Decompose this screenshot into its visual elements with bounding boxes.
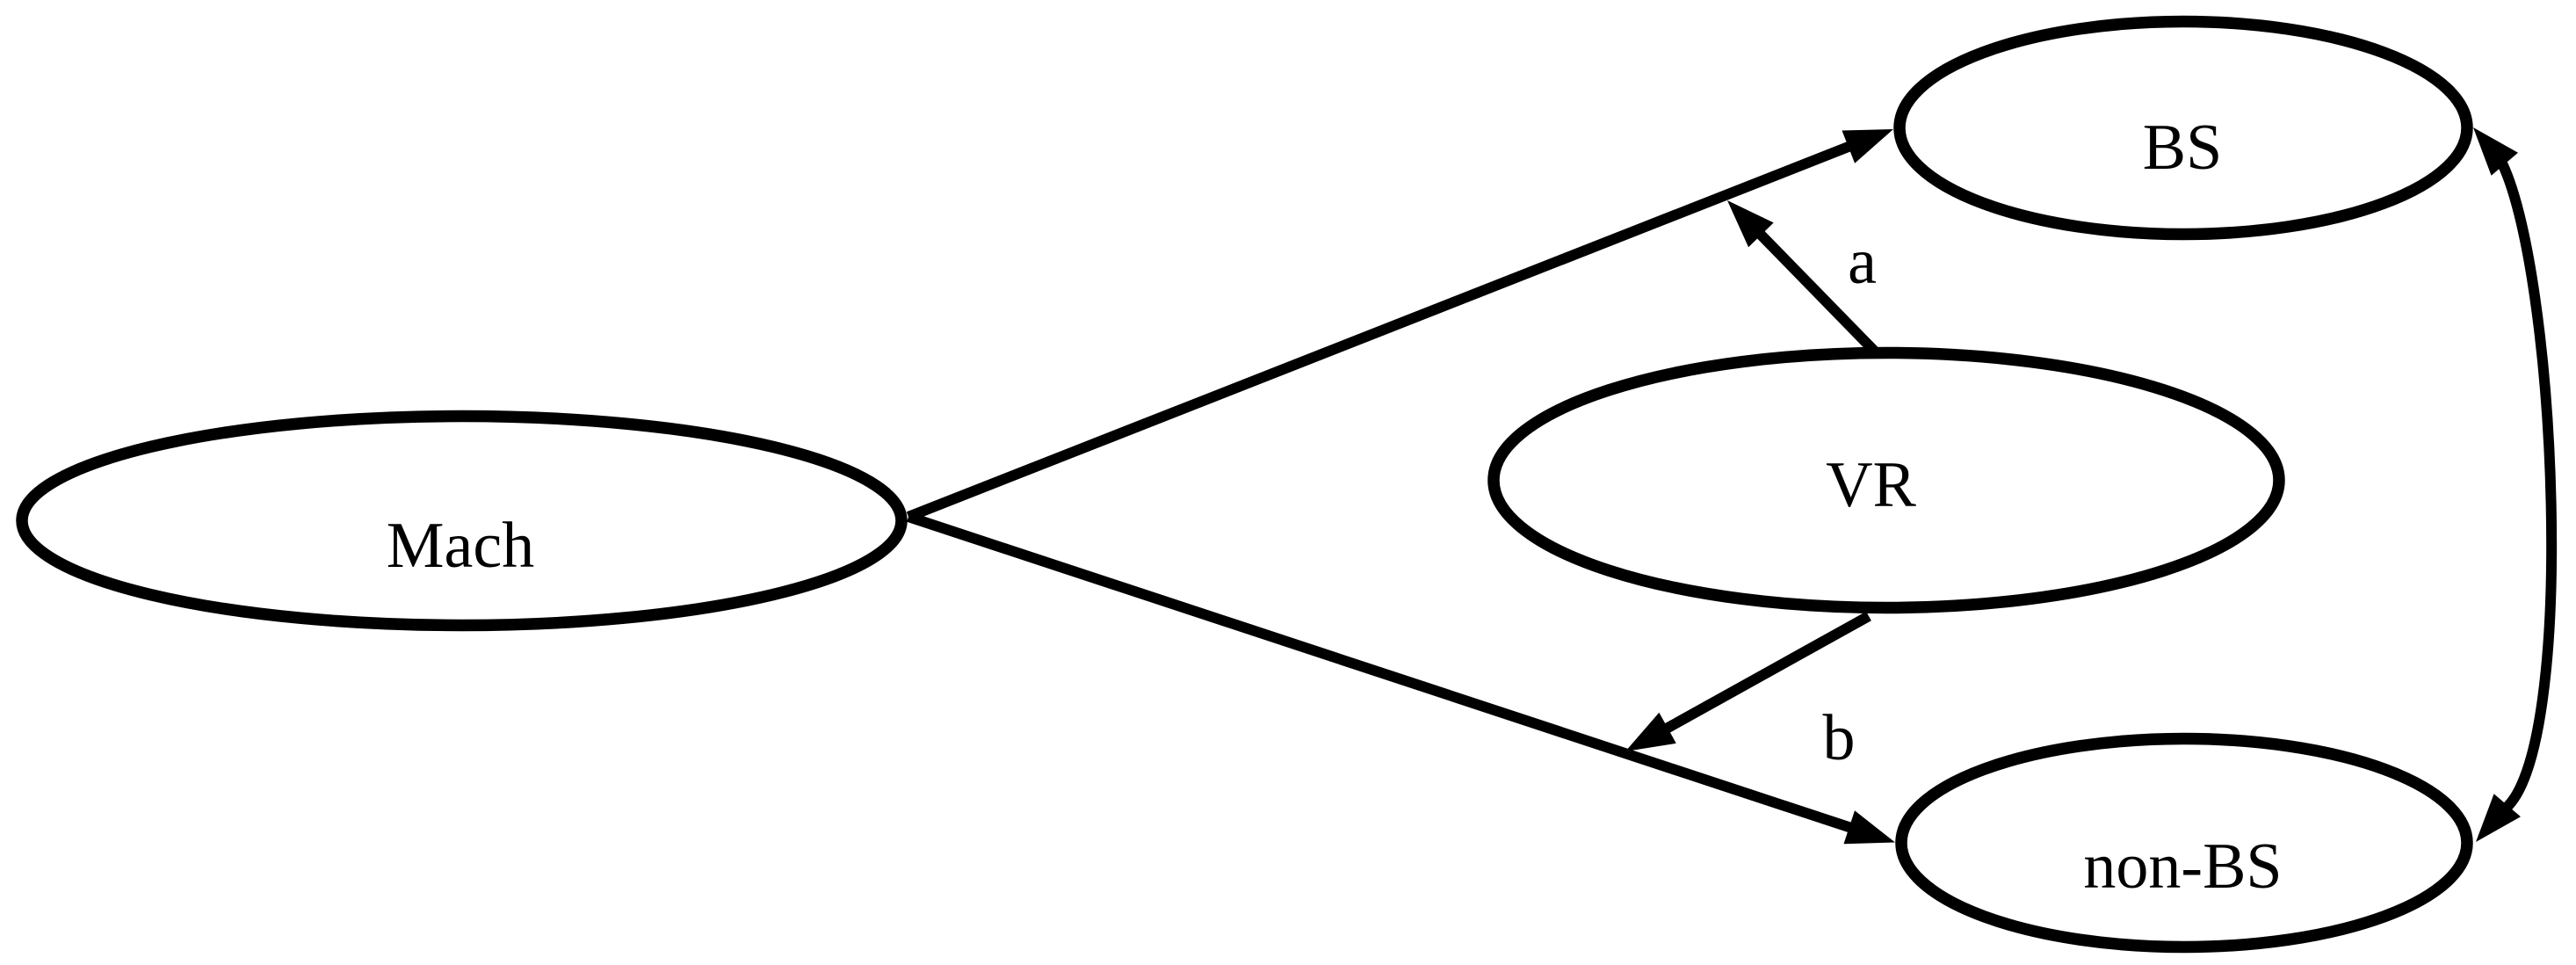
ellipse VR (1494, 353, 2279, 608)
arrowhead a (1727, 200, 1774, 247)
curved wire BS to non-BS (2500, 158, 2551, 810)
svg-text:b: b (1823, 702, 1856, 774)
arrowhead curve top at BS (2473, 127, 2518, 176)
arrowhead at BS (1842, 129, 1894, 163)
svg-text:Mach: Mach (387, 510, 535, 582)
svg-text:VR: VR (1826, 449, 1916, 521)
ellipse non-BS (1901, 739, 2467, 947)
svg-text:BS: BS (2143, 112, 2223, 184)
ellipse BS (1899, 22, 2467, 235)
svg-text:a: a (1848, 226, 1877, 298)
arrow b from VR to path Mach-non-BS (1664, 616, 1869, 730)
arrow a from VR to path Mach-BS (1757, 231, 1874, 351)
ellipse Mach (22, 417, 901, 626)
wire Mach to non-BS (908, 517, 1856, 830)
arrowhead at non-BS (1844, 810, 1896, 844)
svg-text:non-BS: non-BS (2083, 831, 2282, 903)
wire Mach to BS (908, 145, 1854, 517)
arrowhead curve bottom at non-BS (2476, 794, 2521, 842)
arrowhead b (1625, 713, 1676, 751)
